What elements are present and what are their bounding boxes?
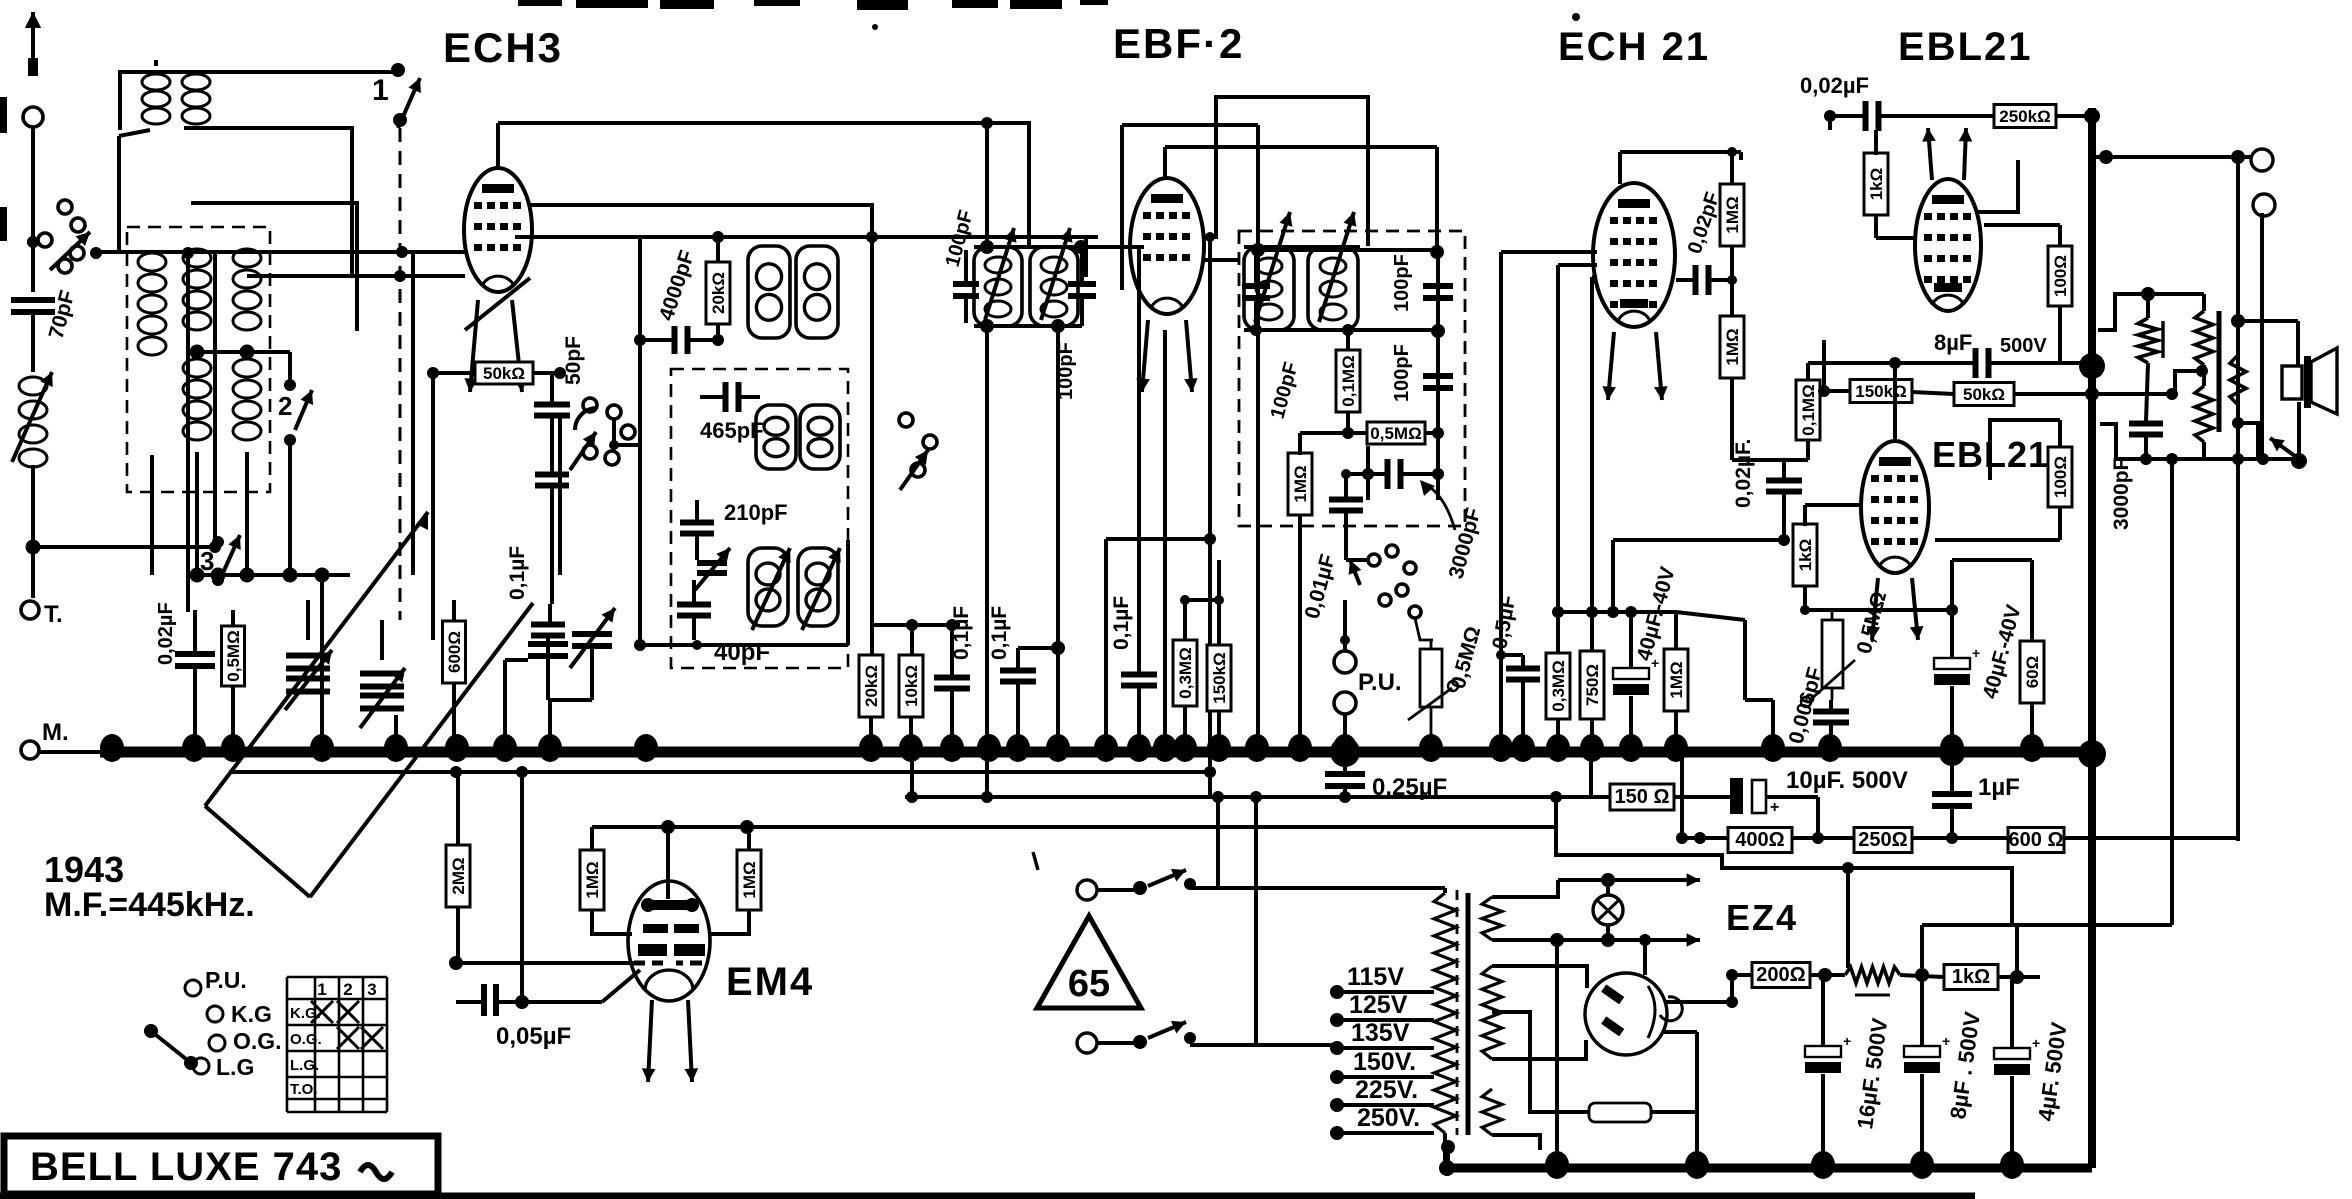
- capacitor 100pF IF2 sec a: [1423, 283, 1453, 289]
- stray pen mark: [1033, 852, 1038, 870]
- wave switch contacts: [1368, 554, 1380, 566]
- wire speaker feed: [2238, 319, 2298, 323]
- tap 250V: [1330, 1126, 1344, 1140]
- svg-text:10kΩ: 10kΩ: [902, 665, 921, 707]
- capacitor 1uF: [1932, 791, 1972, 797]
- resistor 1M ECH21 b: [1720, 316, 1744, 378]
- EBF2 anode wires: [1204, 97, 1368, 246]
- resistor 400 ohm: [1728, 828, 1792, 853]
- svg-text:1µF: 1µF: [1978, 774, 2020, 801]
- svg-text:250kΩ: 250kΩ: [1999, 107, 2050, 126]
- IF1 top rail: [974, 245, 1144, 249]
- svg-text:M.: M.: [42, 719, 69, 746]
- EM4 top electrode wire: [666, 827, 670, 899]
- capacitor 0,01uF: [1329, 497, 1363, 503]
- staircase wire to PSU: [1556, 797, 2012, 925]
- wire EZ4 anode top: [1492, 966, 1587, 988]
- resistor 0,5M IF2: [1367, 422, 1425, 444]
- coil input c upper: [233, 249, 261, 267]
- tube EZ4 envelope: [1585, 973, 1667, 1055]
- terminal M.: [21, 741, 39, 759]
- svg-text:100Ω: 100Ω: [2051, 255, 2070, 297]
- svg-text:0,02µF.: 0,02µF.: [1732, 439, 1755, 508]
- heater line upper: [1492, 880, 1558, 897]
- note year and IF frequency: [44, 849, 255, 924]
- svg-text:0,02µF: 0,02µF: [1800, 73, 1869, 98]
- loudspeaker: [2282, 366, 2302, 399]
- tap 135V: [1330, 1041, 1344, 1055]
- resistor 750 ohm: [1580, 651, 1604, 719]
- antenna terminal: [23, 107, 43, 127]
- filter resistor zigzag: [1845, 967, 1900, 983]
- title box BELL LUXE 743: [4, 1136, 438, 1194]
- svg-text:50kΩ: 50kΩ: [1963, 385, 2005, 404]
- capacitor 0,1uF EBF2 anode: [1121, 672, 1157, 678]
- wire PU to bus: [1343, 714, 1347, 752]
- svg-text:1: 1: [372, 74, 389, 107]
- svg-text:750Ω: 750Ω: [1583, 664, 1602, 706]
- terminal PU lower: [1334, 692, 1356, 714]
- resistor 20k osc: [706, 262, 730, 324]
- wire x872 20k to bus: [870, 240, 874, 654]
- tap 225V: [1330, 1098, 1344, 1112]
- svg-text:250V.: 250V.: [1357, 1104, 1420, 1132]
- wire EBL21 anode: [1977, 160, 2018, 212]
- wire x2017 riser: [2015, 925, 2019, 977]
- oscillator coil E variable: [748, 548, 788, 626]
- capacitor 0,02uF ECH21: [1766, 478, 1802, 484]
- wire to T terminal: [31, 465, 35, 545]
- IF2 secondary coil variable: [1308, 247, 1358, 330]
- capacitor 3000pF speaker: [2129, 421, 2163, 427]
- resistor 200 ohm: [1752, 963, 1810, 988]
- wire x912 bus to rail: [910, 752, 914, 797]
- wire ECH3 cathode down: [431, 373, 435, 640]
- wire 0,05uF to EM4 diode: [520, 772, 524, 1002]
- tube EBF2 envelope: [1130, 178, 1204, 314]
- wire terminal link: [2092, 155, 2251, 159]
- resistor 250 ohm: [1854, 828, 1912, 853]
- svg-text:250Ω: 250Ω: [1858, 829, 1907, 851]
- svg-text:210pF: 210pF: [724, 500, 788, 525]
- svg-text:+: +: [1843, 1033, 1851, 1049]
- wire grid line to ECH3: [95, 250, 465, 254]
- svg-text:50kΩ: 50kΩ: [483, 364, 525, 383]
- svg-text:1943: 1943: [44, 849, 124, 890]
- ECH3 grid cap wire: [496, 140, 500, 168]
- dashed box oscillator: [671, 369, 848, 668]
- svg-text:P.U.: P.U.: [1358, 669, 1402, 696]
- capacitor 3000pF IF2: [1385, 459, 1391, 489]
- capacitor 0,1uF decoupling b: [1000, 668, 1036, 674]
- wire ECH21 grid AF line: [1558, 263, 1597, 267]
- svg-text:600 Ω: 600 Ω: [2009, 829, 2064, 851]
- resistor 60 ohm: [2020, 641, 2044, 703]
- resistor 600 ohm: [2008, 828, 2064, 853]
- rail y925: [1922, 923, 2172, 927]
- wire EM4 grid line: [456, 961, 640, 965]
- resistor 600 ohm osc: [443, 621, 466, 683]
- dashed box input bandfilter: [127, 227, 270, 492]
- IF2 secondary chain vertical: [1436, 258, 1440, 500]
- resistor 100 ohm bottom: [2048, 447, 2072, 507]
- svg-text:1MΩ: 1MΩ: [1723, 328, 1742, 365]
- wire speaker to switch: [2297, 402, 2301, 459]
- svg-text:1MΩ: 1MΩ: [583, 861, 602, 898]
- wire x1773 stub: [1771, 700, 1775, 752]
- wire ECH3 anode to osc: [530, 205, 872, 237]
- wire x1682 to bus: [1680, 757, 1684, 838]
- rotary switch wafer left: [583, 398, 597, 412]
- svg-text:0,1µF: 0,1µF: [988, 606, 1011, 660]
- svg-text:8µF: 8µF: [1934, 330, 1972, 355]
- chassis ground bus: [40, 750, 105, 754]
- mains terminal upper: [1077, 880, 1097, 900]
- tap 150V: [1330, 1070, 1344, 1084]
- resistor 20k AVC: [859, 655, 883, 717]
- wire x1256 to mains: [1254, 797, 1258, 1045]
- output transformer secondary: [2230, 355, 2246, 405]
- svg-text:100pF: 100pF: [1391, 254, 1413, 312]
- tap 125V: [1330, 1013, 1344, 1027]
- mains terminal lower: [1077, 1033, 1097, 1053]
- svg-text:O.G.: O.G.: [233, 1028, 282, 1054]
- wire EZ4 anode bottom: [1492, 1040, 1586, 1059]
- selector terminal O.G.: [209, 1035, 225, 1051]
- capacitor 100pF IF1 primary: [953, 281, 979, 287]
- resistor 250k: [1994, 105, 2056, 128]
- label tube EM4: [726, 960, 814, 1004]
- oscillator coil B: [796, 246, 838, 338]
- svg-text:225V.: 225V.: [1355, 1076, 1418, 1104]
- electrolytic 16uF-500V: [1805, 1046, 1841, 1057]
- wire fuse left: [1492, 1012, 1580, 1112]
- svg-text:+: +: [2032, 1035, 2040, 1051]
- EM4 cathode leads: [648, 1000, 652, 1082]
- svg-text:EBL21: EBL21: [1898, 25, 2033, 69]
- output transformer tap wire: [2175, 371, 2202, 394]
- svg-text:1MΩ: 1MΩ: [1723, 196, 1742, 233]
- wire x413 vertical: [411, 252, 415, 575]
- secondary rectifier heater winding: [1482, 1089, 1502, 1135]
- power supply ground bus: [1447, 1164, 2092, 1173]
- wire x2238 down to rail: [2236, 459, 2240, 841]
- oscillator coil A: [748, 246, 790, 338]
- tuning gang capacitor c: [528, 641, 568, 647]
- wire EZ4 cathode: [1664, 1000, 1732, 1004]
- svg-text:465pF: 465pF: [700, 418, 764, 443]
- svg-text:1MΩ: 1MΩ: [1667, 661, 1686, 698]
- junction dots coil taps: [190, 345, 205, 360]
- tube ECH3 envelope: [464, 168, 532, 292]
- resistor 0,3M diode load: [1173, 640, 1197, 706]
- wire antenna junction: [31, 127, 35, 292]
- bottom edge line: [0, 1193, 1975, 1199]
- capacitor 100pF IF2 sec b: [1423, 373, 1453, 379]
- wire IF1 secondary to bus: [1056, 326, 1060, 752]
- svg-text:EM4: EM4: [726, 960, 814, 1004]
- scan artifact marks top edge: [518, 0, 562, 6]
- svg-text:0,1µF: 0,1µF: [1110, 596, 1133, 650]
- capacitor 8uF: [1973, 348, 1979, 378]
- wire osc bottom rail: [640, 643, 848, 647]
- wire x2238 terminal vertical: [2236, 157, 2240, 459]
- svg-text:125V: 125V: [1349, 991, 1408, 1019]
- EZ4 internals: [1601, 984, 1624, 1004]
- svg-text:150 Ω: 150 Ω: [1615, 786, 1670, 808]
- capacitor 210pF: [680, 520, 714, 526]
- capacitor variable b: [360, 671, 404, 677]
- wire x1824 riser: [1822, 340, 1826, 391]
- resistor 1M ECH21 a: [1720, 184, 1744, 246]
- EBL21 top anode arrows up: [1928, 128, 1932, 180]
- resistor 150k: [1207, 645, 1231, 711]
- svg-text:+: +: [1770, 799, 1779, 816]
- svg-text:K.G: K.G: [231, 1001, 272, 1027]
- tube EBL21 bottom envelope: [1861, 441, 1929, 573]
- svg-text:EZ4: EZ4: [1726, 897, 1798, 938]
- wire left vertical x119: [117, 136, 121, 253]
- wire y203 run: [191, 203, 357, 331]
- svg-text:0,1MΩ: 0,1MΩ: [1339, 355, 1358, 406]
- svg-text:0,5MΩ: 0,5MΩ: [224, 630, 243, 681]
- svg-text:200Ω: 200Ω: [1756, 964, 1805, 986]
- svg-text:150kΩ: 150kΩ: [1210, 652, 1229, 703]
- svg-text:10µF. 500V: 10µF. 500V: [1786, 767, 1908, 794]
- power transformer core: [1456, 890, 1459, 1135]
- svg-text:1kΩ: 1kΩ: [1867, 168, 1886, 201]
- wire AF rail: [1558, 610, 1676, 614]
- svg-text:400Ω: 400Ω: [1735, 829, 1784, 851]
- wire y276 to dashed line: [247, 274, 465, 278]
- wire x322 rail to bus: [320, 575, 324, 700]
- wire EBF2 down x1165: [1163, 330, 1167, 752]
- svg-text:T.: T.: [44, 601, 63, 628]
- rail y827 EM4 grid: [592, 825, 1556, 829]
- mains switch upper: [1097, 888, 1135, 892]
- resistor 1k EBL21 top: [1864, 153, 1888, 215]
- svg-text:BELL LUXE 743: BELL LUXE 743: [30, 1145, 342, 1189]
- wire coil bottom run: [184, 128, 352, 276]
- selector terminal P.U.: [185, 980, 201, 996]
- capacitor 0,1uF tuning: [531, 622, 565, 628]
- capacitor 0,05uF EM4: [481, 984, 487, 1016]
- selector terminal L.G: [193, 1058, 209, 1074]
- svg-text:3: 3: [367, 980, 376, 999]
- wire ECH3 top to IF1: [498, 123, 1029, 247]
- wire ECH3 to IF1 cap: [515, 235, 1098, 239]
- capacitor 40pF: [677, 602, 711, 608]
- svg-text:20kΩ: 20kΩ: [709, 272, 728, 314]
- potentiometer 0,5M volume: [1420, 649, 1442, 707]
- capacitor 4000pF: [672, 326, 678, 354]
- secondary heater winding: [1482, 897, 1502, 940]
- selector link: [144, 1024, 158, 1038]
- wire ECH21 cathode line: [1592, 275, 1597, 279]
- svg-text:+: +: [1972, 645, 1980, 661]
- secondary HT winding: [1482, 966, 1502, 1059]
- triangle symbol 65: [1037, 916, 1141, 1008]
- heater line lower: [1492, 938, 1700, 942]
- wire IF1 top feed: [985, 123, 989, 247]
- IF1 secondary coil: [1030, 247, 1078, 326]
- field coil resistor: [2138, 318, 2158, 363]
- wire EBF2 screen x1106: [1104, 539, 1108, 752]
- resistor 1M EM4 right: [737, 850, 761, 910]
- electrolytic 40uF a: [1613, 668, 1649, 679]
- wire x2262 terminal vertical: [2260, 213, 2264, 459]
- capacitor 100pF IF1 secondary: [1068, 281, 1096, 287]
- electrolytic 8uF-500V: [1904, 1046, 1940, 1057]
- resistor 1M IF2: [1288, 453, 1312, 515]
- electrolytic 40uF b: [1934, 658, 1970, 669]
- tube EBL21 top envelope: [1915, 179, 1981, 311]
- rail y797: [905, 795, 1610, 799]
- resistor 0,1M ECH21: [1796, 380, 1820, 440]
- svg-text:0,1µF: 0,1µF: [506, 546, 529, 600]
- label tube EBF-2: [1113, 20, 1244, 67]
- electrolytic 10uF-500V: [1730, 778, 1743, 814]
- tuning gang link diagonal a: [205, 512, 428, 806]
- svg-text:EBF·2: EBF·2: [1113, 20, 1244, 67]
- coil input b upper: [183, 249, 211, 267]
- svg-text:0,5MΩ: 0,5MΩ: [1370, 424, 1421, 443]
- capacitor 0,006pF: [1813, 709, 1849, 715]
- svg-text:0,05µF: 0,05µF: [496, 1023, 571, 1050]
- resistor 0,3M AF: [1546, 653, 1570, 719]
- resistor 10k AVC: [899, 655, 923, 717]
- svg-text:1: 1: [317, 980, 326, 999]
- capacitor 50pF: [534, 402, 570, 408]
- wire 8uF to EBL21 grid: [1893, 363, 1897, 441]
- coil input a: [138, 253, 166, 271]
- svg-text:ECH3: ECH3: [443, 24, 563, 71]
- tuning gang link vee: [205, 806, 310, 897]
- IF2 bottom rail: [1244, 328, 1438, 332]
- wire x1258 long vertical: [1256, 250, 1260, 752]
- wire HT to output transformer: [2098, 294, 2204, 330]
- wire x2172 down to psu rail: [2170, 459, 2174, 925]
- wire x912 10k: [910, 625, 914, 654]
- ECH3 cathode arrows: [470, 300, 478, 392]
- output transformer primary lower: [2195, 386, 2213, 442]
- wire x1848 riser: [1846, 868, 1850, 968]
- wire x1830 long to bus: [1828, 116, 1832, 130]
- resistor 1M EM4 left: [580, 850, 604, 910]
- resistor 50k ECH21: [1954, 383, 2014, 406]
- EBF2 cathode arrows: [1142, 320, 1148, 392]
- resistor 150k ECH21: [1850, 380, 1912, 403]
- capacitor 0,02pF osc coupling: [1693, 265, 1699, 295]
- svg-text:+: +: [1651, 655, 1659, 671]
- wire IF1 primary to bus: [985, 326, 989, 752]
- tap 115V: [1330, 985, 1344, 999]
- rail y838 resistors: [1682, 836, 2238, 840]
- oscillator coil C: [756, 405, 796, 469]
- electrolytic 4uF-500V: [1994, 1048, 2030, 1059]
- resistor 2M EM4: [446, 845, 470, 907]
- wire x1218 to mains: [1216, 797, 1220, 888]
- IF2 primary coil variable: [1244, 247, 1294, 330]
- output transformer core: [2217, 311, 2222, 432]
- tube EM4 envelope: [628, 881, 710, 1001]
- antenna coil L1: [142, 74, 170, 90]
- wires coils to bottom rail: [150, 455, 154, 575]
- svg-text:0,1MΩ: 0,1MΩ: [1799, 384, 1818, 435]
- resistor 1k EBL21 bottom: [1793, 524, 1817, 586]
- trimmer capacitor osc: [697, 560, 727, 566]
- rail y772: [229, 770, 1210, 774]
- wire EZ4 to bottom heater: [1492, 1135, 1540, 1150]
- coil input c lower: [233, 359, 261, 377]
- label tube ECH21: [1558, 25, 1710, 69]
- EBF2 grid cap wire: [1163, 147, 1167, 178]
- svg-text:T.O.: T.O.: [290, 1081, 318, 1098]
- svg-text:50pF: 50pF: [562, 336, 585, 385]
- svg-text:150kΩ: 150kΩ: [1855, 382, 1906, 401]
- capacitor 0,1uF decoupling a: [934, 675, 970, 681]
- svg-text:+: +: [1942, 1033, 1950, 1049]
- wire fuse right riser: [1695, 1032, 1699, 1168]
- svg-text:500V: 500V: [2000, 335, 2047, 357]
- EM4 internals: [648, 900, 692, 910]
- tuning gang capacitor d: [572, 631, 612, 637]
- capacitor osc coupling: [535, 472, 569, 478]
- band table grid: [286, 977, 289, 1112]
- power transformer primary winding: [1434, 893, 1456, 1133]
- band switch 2: [284, 379, 296, 391]
- resistor 1k filter: [1944, 965, 1998, 990]
- svg-text:600Ω: 600Ω: [445, 631, 464, 673]
- bus junction blobs: [100, 734, 124, 762]
- svg-text:65: 65: [1068, 963, 1110, 1005]
- wire coil top to band switch 1: [120, 72, 392, 130]
- resistor 50k ECH3: [475, 362, 533, 384]
- capacitor 70pF: [11, 297, 55, 303]
- dashed box IF2: [1239, 231, 1465, 526]
- svg-text:135V: 135V: [1351, 1019, 1410, 1047]
- band switch contacts upper-left: [58, 200, 72, 214]
- IF1 bottom rail: [974, 324, 1082, 328]
- IF2 top rail: [1244, 245, 1360, 249]
- wire ECH21 top rail: [1620, 150, 1741, 154]
- svg-text:0,25µF: 0,25µF: [1372, 774, 1447, 801]
- dashed wire run from switch 1: [399, 128, 402, 620]
- wire osc coils join: [638, 340, 642, 645]
- label tube EBL21 (second): [1932, 434, 2049, 475]
- capacitor variable a: [286, 653, 330, 659]
- svg-text:1MΩ: 1MΩ: [740, 861, 759, 898]
- svg-text:115V: 115V: [1347, 963, 1404, 991]
- fuse: [1589, 1103, 1651, 1122]
- thick HT vertical: [2088, 108, 2096, 1168]
- potentiometer 0,5M tone: [1822, 620, 1843, 688]
- label tube EZ4: [1726, 897, 1798, 938]
- rotary switch wafer right: [899, 413, 913, 427]
- capacitor 0,25uF: [1325, 771, 1365, 777]
- coil input b lower: [183, 359, 211, 377]
- ECH21 cathode arrows: [1608, 332, 1614, 400]
- resistor 0,1M IF2: [1336, 350, 1360, 412]
- selector terminal K.G: [207, 1006, 223, 1022]
- IF1 primary coil: [974, 247, 1022, 326]
- svg-text:0,02µF: 0,02µF: [155, 602, 177, 665]
- label tube ECH3: [443, 24, 563, 71]
- svg-text:2: 2: [278, 391, 292, 421]
- wire ECH21 grid diode line: [1501, 250, 1597, 254]
- junction rail y575: [195, 573, 350, 577]
- output terminal 1: [2251, 149, 2273, 171]
